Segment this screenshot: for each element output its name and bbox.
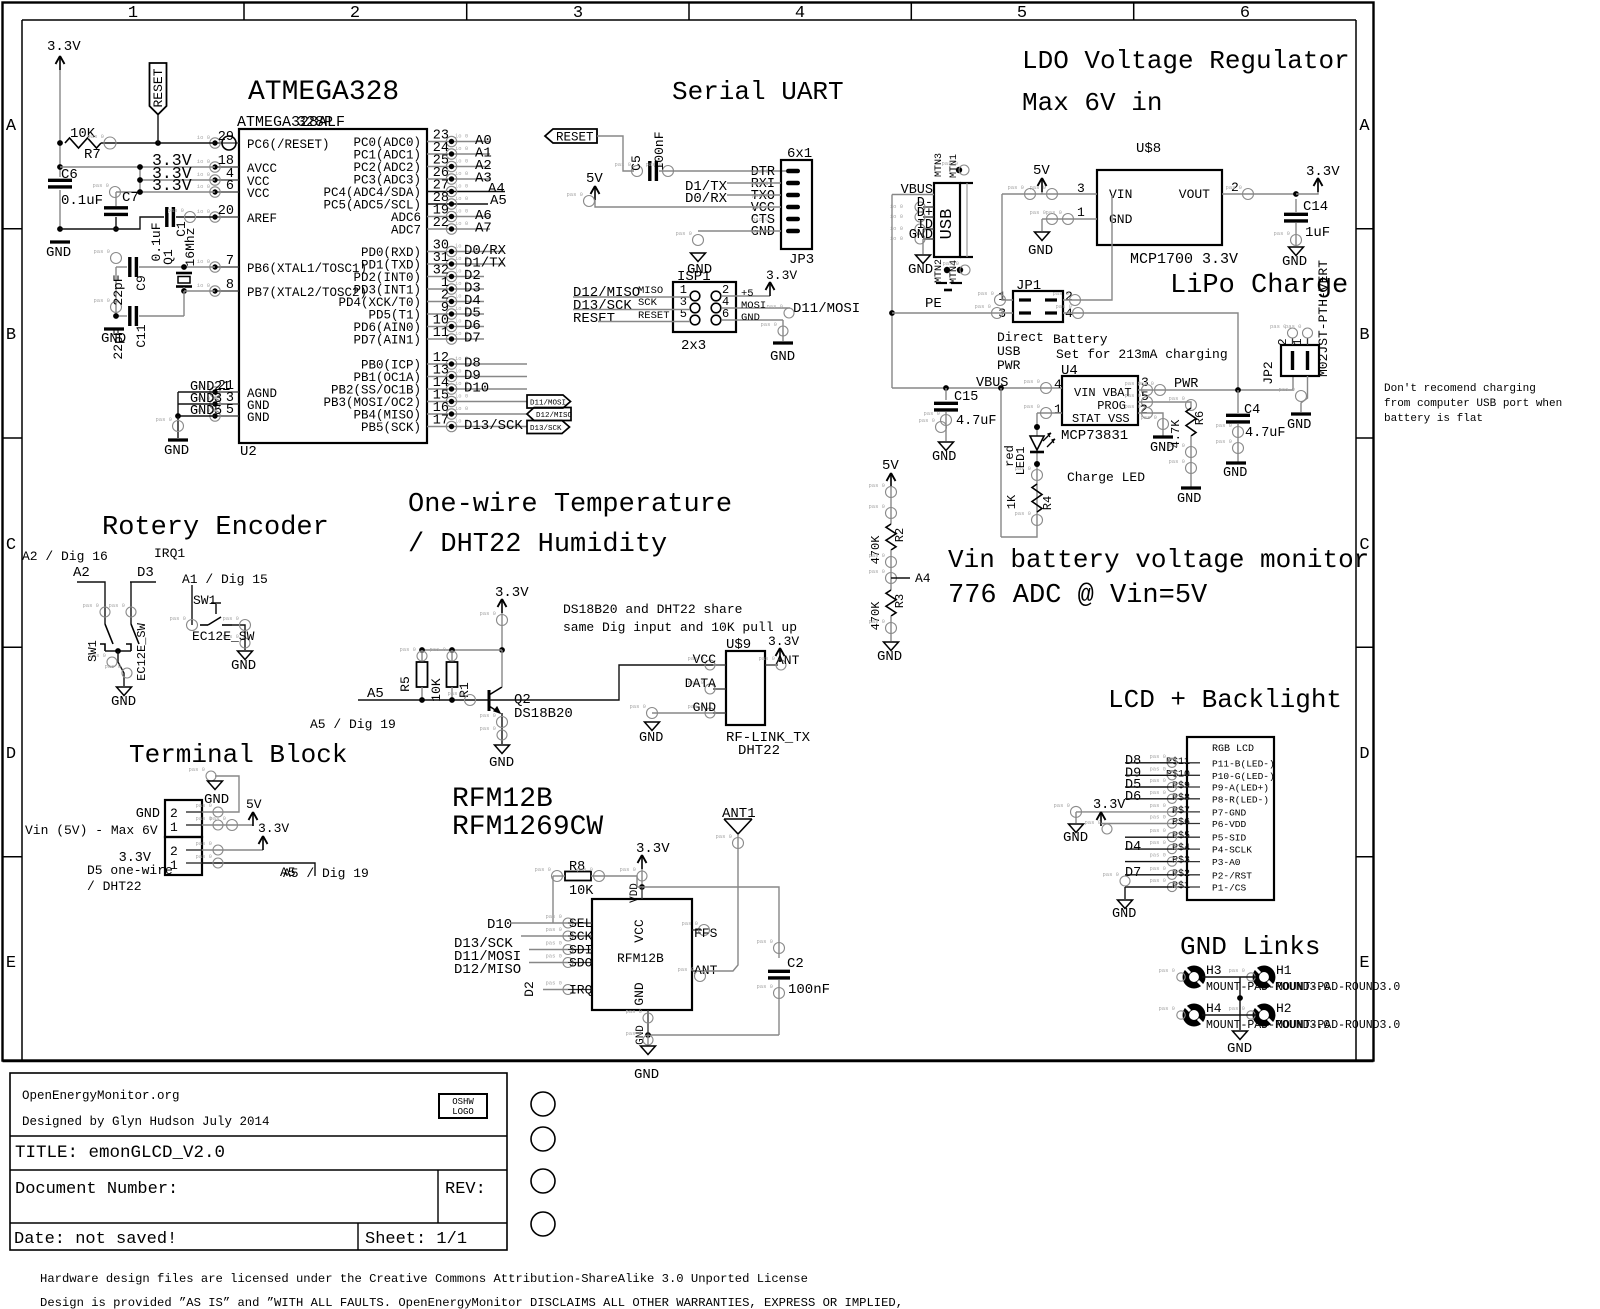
- svg-text:RFM12B: RFM12B: [452, 784, 553, 815]
- svg-text:SCK: SCK: [638, 297, 658, 309]
- svg-text:GND Links: GND Links: [1180, 932, 1320, 962]
- svg-text:4.7uF: 4.7uF: [956, 414, 997, 429]
- svg-text:A5: A5: [280, 865, 296, 880]
- svg-text:C11: C11: [134, 324, 149, 348]
- svg-text:MOSI: MOSI: [741, 300, 766, 312]
- svg-text:pas 0: pas 0: [545, 913, 562, 920]
- svg-text:22: 22: [433, 216, 449, 231]
- svg-text:pas 0: pas 0: [209, 815, 226, 822]
- svg-text:pas 0: pas 0: [1149, 865, 1166, 872]
- svg-text:PWR: PWR: [1174, 377, 1198, 392]
- svg-text:6: 6: [722, 307, 729, 321]
- svg-text:io 0: io 0: [455, 158, 468, 165]
- svg-text:U2: U2: [240, 444, 257, 460]
- svg-text:MOUNT-PAD-ROUND3.0: MOUNT-PAD-ROUND3.0: [1276, 1019, 1400, 1032]
- svg-text:3.3V: 3.3V: [258, 821, 289, 836]
- svg-text:GND: GND: [231, 658, 256, 674]
- svg-text:E: E: [6, 954, 16, 973]
- svg-text:pas 0: pas 0: [1149, 777, 1166, 784]
- svg-text:pas 0: pas 0: [625, 1030, 642, 1037]
- svg-text:pas 0: pas 0: [1055, 303, 1072, 310]
- svg-text:DS18B20 and DHT22 share: DS18B20 and DHT22 share: [563, 602, 742, 617]
- svg-text:pas 0: pas 0: [1014, 510, 1031, 517]
- svg-text:pas 0: pas 0: [1168, 395, 1185, 402]
- svg-text:D: D: [6, 745, 16, 764]
- svg-text:PB5(SCK): PB5(SCK): [361, 421, 421, 435]
- svg-text:STAT VSS: STAT VSS: [1072, 412, 1130, 426]
- svg-text:pas 0: pas 0: [429, 646, 446, 653]
- svg-text:P1-/CS: P1-/CS: [1212, 883, 1247, 894]
- svg-text:pas 0: pas 0: [1149, 802, 1166, 809]
- svg-text:/ DHT22: / DHT22: [87, 879, 142, 894]
- svg-text:pas 0: pas 0: [188, 766, 205, 773]
- svg-text:D0/RX: D0/RX: [685, 191, 728, 207]
- svg-text:776 ADC @ Vin=5V: 776 ADC @ Vin=5V: [948, 581, 1208, 611]
- svg-text:pas 0: pas 0: [1124, 392, 1141, 399]
- svg-text:RESET: RESET: [151, 68, 166, 107]
- svg-text:io 0: io 0: [455, 183, 468, 190]
- svg-text:B: B: [1359, 326, 1369, 345]
- svg-text:A4: A4: [915, 571, 931, 586]
- svg-text:2: 2: [170, 844, 178, 859]
- svg-text:pas 0: pas 0: [545, 980, 562, 987]
- svg-text:4: 4: [795, 4, 805, 23]
- svg-text:pas 0: pas 0: [155, 416, 172, 423]
- svg-text:pas 0: pas 0: [1149, 827, 1166, 834]
- svg-text:pas 0: pas 0: [534, 866, 551, 873]
- svg-text:17: 17: [433, 414, 449, 429]
- svg-text:pas 0: pas 0: [1278, 386, 1295, 393]
- svg-text:3.3V: 3.3V: [495, 585, 529, 601]
- svg-text:pas 0: pas 0: [447, 690, 464, 697]
- svg-text:470K: 470K: [869, 601, 883, 631]
- svg-text:Don't recomend charging: Don't recomend charging: [1384, 383, 1536, 395]
- svg-text:GND: GND: [908, 262, 933, 278]
- svg-text:pas 0: pas 0: [1052, 290, 1069, 297]
- svg-text:SW1: SW1: [193, 593, 217, 608]
- svg-text:pas 0: pas 0: [629, 703, 646, 710]
- svg-text:io 0: io 0: [455, 145, 468, 152]
- svg-text:H3: H3: [1206, 963, 1222, 978]
- svg-text:C7: C7: [122, 190, 139, 206]
- svg-text:Designed by Glyn Hudson July 2: Designed by Glyn Hudson July 2014: [22, 1115, 270, 1129]
- svg-text:pas 0: pas 0: [1084, 819, 1101, 826]
- svg-text:16Mhz: 16Mhz: [183, 227, 198, 266]
- svg-text:GND: GND: [111, 694, 136, 710]
- svg-text:GND: GND: [741, 312, 760, 324]
- svg-text:A5: A5: [490, 193, 507, 209]
- svg-text:D3: D3: [137, 565, 154, 581]
- svg-text:5: 5: [214, 404, 222, 419]
- svg-text:VOUT: VOUT: [1179, 187, 1210, 202]
- svg-text:pas 0: pas 0: [868, 482, 885, 489]
- svg-text:pas 0: pas 0: [104, 663, 121, 670]
- svg-text:from computer USB port when: from computer USB port when: [1384, 398, 1562, 410]
- svg-text:pas 0: pas 0: [918, 417, 935, 424]
- svg-text:2x3: 2x3: [681, 338, 706, 354]
- svg-text:D12/MISO: D12/MISO: [536, 412, 573, 420]
- svg-text:C: C: [6, 536, 16, 555]
- svg-text:pas 0: pas 0: [766, 303, 783, 310]
- svg-text:GND: GND: [1177, 492, 1201, 507]
- svg-text:LCD + Backlight: LCD + Backlight: [1108, 685, 1342, 715]
- svg-text:GND: GND: [639, 731, 663, 746]
- svg-text:pas 0: pas 0: [1158, 1005, 1175, 1012]
- svg-text:470K: 470K: [869, 535, 883, 565]
- svg-text:GND: GND: [1287, 418, 1311, 433]
- svg-text:VCC: VCC: [632, 919, 647, 943]
- svg-text:io 0: io 0: [197, 158, 210, 165]
- svg-text:pas 0: pas 0: [760, 321, 777, 328]
- svg-text:GND: GND: [164, 443, 189, 459]
- svg-text:GND: GND: [1112, 907, 1136, 922]
- svg-text:C9: C9: [134, 275, 149, 291]
- svg-text:1: 1: [170, 820, 178, 835]
- svg-text:IRQ1: IRQ1: [154, 546, 185, 561]
- svg-text:1: 1: [1054, 402, 1062, 417]
- svg-text:LDO Voltage Regulator: LDO Voltage Regulator: [1022, 46, 1350, 76]
- svg-text:pas 0: pas 0: [868, 503, 885, 510]
- svg-text:pas 0: pas 0: [545, 940, 562, 947]
- svg-text:10K: 10K: [569, 884, 594, 899]
- svg-text:1: 1: [128, 4, 138, 23]
- svg-text:pas 0: pas 0: [619, 866, 636, 873]
- svg-text:REV:: REV:: [445, 1180, 486, 1199]
- svg-text:3: 3: [1077, 181, 1085, 196]
- svg-text:A1 / Dig 15: A1 / Dig 15: [182, 572, 268, 587]
- svg-text:RESET: RESET: [556, 131, 594, 145]
- svg-text:pas 0: pas 0: [977, 290, 994, 297]
- svg-text:pas 0: pas 0: [942, 260, 959, 267]
- svg-text:P6-VDD: P6-VDD: [1212, 819, 1247, 830]
- svg-text:SW1: SW1: [86, 640, 100, 662]
- svg-text:GND: GND: [932, 450, 956, 465]
- svg-text:3.3V: 3.3V: [152, 176, 192, 195]
- svg-text:JP2: JP2: [1261, 361, 1276, 384]
- svg-text:OSHW: OSHW: [452, 1097, 474, 1107]
- svg-text:pas 0: pas 0: [715, 833, 732, 840]
- svg-text:D5 one-wire: D5 one-wire: [87, 863, 173, 878]
- svg-text:GND: GND: [909, 228, 933, 243]
- svg-text:DS18B20: DS18B20: [514, 706, 573, 722]
- svg-text:C2: C2: [787, 956, 804, 972]
- svg-text:6x1: 6x1: [787, 146, 812, 162]
- svg-text:GND: GND: [634, 1067, 659, 1083]
- svg-text:GND: GND: [489, 755, 514, 771]
- svg-text:ADC7: ADC7: [391, 224, 421, 238]
- svg-text:pas 0: pas 0: [1007, 184, 1024, 191]
- svg-text:pas 0: pas 0: [399, 646, 416, 653]
- svg-text:pas 0: pas 0: [1273, 230, 1290, 237]
- svg-text:IRQ: IRQ: [569, 983, 593, 998]
- svg-text:pas 0: pas 0: [1029, 184, 1046, 191]
- svg-text:A2: A2: [73, 565, 90, 581]
- svg-text:Vin battery voltage monitor: Vin battery voltage monitor: [948, 545, 1369, 575]
- svg-text:pas 0: pas 0: [195, 840, 212, 847]
- svg-text:Battery: Battery: [1053, 332, 1108, 347]
- svg-text:pas 0: pas 0: [1140, 414, 1157, 421]
- svg-text:Direct: Direct: [997, 330, 1044, 345]
- svg-text:100nF: 100nF: [652, 131, 667, 170]
- svg-text:JP3: JP3: [789, 252, 814, 268]
- svg-text:R2: R2: [893, 528, 907, 542]
- svg-text:AVCC: AVCC: [247, 162, 277, 176]
- svg-text:P10-G(LED-): P10-G(LED-): [1212, 771, 1275, 782]
- svg-text:pas 0: pas 0: [479, 712, 496, 719]
- svg-text:pas 0: pas 0: [868, 618, 885, 625]
- svg-text:GND: GND: [1223, 466, 1247, 481]
- svg-text:P7-GND: P7-GND: [1212, 807, 1247, 818]
- svg-text:11: 11: [433, 326, 449, 341]
- svg-text:VBUS: VBUS: [976, 376, 1008, 391]
- svg-text:R6: R6: [1193, 411, 1207, 425]
- svg-text:5V: 5V: [586, 171, 603, 187]
- svg-text:Vin (5V) - Max 6V: Vin (5V) - Max 6V: [25, 823, 158, 838]
- svg-text:A2 / Dig 16: A2 / Dig 16: [22, 549, 108, 564]
- svg-text:pas 0: pas 0: [566, 191, 583, 198]
- svg-text:5V: 5V: [1033, 163, 1050, 179]
- svg-text:pas 0: pas 0: [222, 615, 239, 622]
- svg-text:io 0: io 0: [455, 170, 468, 177]
- svg-text:PC6(/RESET): PC6(/RESET): [247, 138, 330, 152]
- svg-text:GND: GND: [136, 807, 160, 822]
- svg-text:LOGO: LOGO: [452, 1107, 474, 1117]
- svg-text:C4: C4: [1244, 403, 1260, 418]
- svg-text:D7: D7: [464, 331, 481, 347]
- svg-text:D7: D7: [1125, 866, 1141, 881]
- svg-text:pas 0: pas 0: [1228, 1005, 1245, 1012]
- svg-text:Hardware design files are lice: Hardware design files are licensed under…: [40, 1272, 808, 1286]
- svg-text:MOUNT-PAD-ROUND3.0: MOUNT-PAD-ROUND3.0: [1276, 981, 1400, 994]
- svg-text:pas 0: pas 0: [479, 610, 496, 617]
- svg-text:Sheet: 1/1: Sheet: 1/1: [365, 1230, 467, 1249]
- svg-text:pad 0: pad 0: [752, 168, 769, 175]
- svg-text:100nF: 100nF: [788, 982, 830, 998]
- svg-text:pas 0: pas 0: [1149, 753, 1166, 760]
- svg-text:0.1uF: 0.1uF: [61, 193, 103, 209]
- svg-text:io 0: io 0: [197, 208, 210, 215]
- svg-text:pas 0: pas 0: [1102, 871, 1119, 878]
- svg-text:pas 0: pas 0: [1215, 422, 1232, 429]
- svg-text:C15: C15: [954, 390, 978, 405]
- svg-text:pas 0: pas 0: [1023, 403, 1040, 410]
- svg-text:22pF: 22pF: [111, 274, 126, 305]
- svg-text:GND: GND: [1063, 830, 1088, 846]
- svg-text:ATMEGA328: ATMEGA328: [248, 77, 399, 108]
- svg-text:3.3V: 3.3V: [1306, 164, 1340, 180]
- svg-text:pas 0: pas 0: [1124, 403, 1141, 410]
- svg-text:PE: PE: [925, 296, 942, 312]
- svg-text:PB6(XTAL1/TOSC1): PB6(XTAL1/TOSC1): [247, 262, 367, 276]
- svg-text:PWR: PWR: [997, 358, 1021, 373]
- svg-text:DHT22: DHT22: [738, 743, 780, 759]
- svg-text:D11/MOSI: D11/MOSI: [530, 400, 566, 408]
- svg-text:C5: C5: [629, 155, 644, 171]
- svg-text:MCP1700 3.3V: MCP1700 3.3V: [1130, 251, 1238, 268]
- svg-text:pas 0: pas 0: [545, 926, 562, 933]
- svg-text:io 0: io 0: [455, 133, 468, 140]
- svg-text:RGB LCD: RGB LCD: [1212, 744, 1254, 755]
- svg-text:pas 0: pas 0: [92, 182, 109, 189]
- svg-text:EC12E_SW: EC12E_SW: [192, 629, 255, 644]
- svg-text:GND: GND: [632, 982, 647, 1006]
- svg-text:pas 0: pas 0: [675, 230, 692, 237]
- svg-text:TITLE: emonGLCD_V2.0: TITLE: emonGLCD_V2.0: [15, 1143, 225, 1163]
- svg-text:1: 1: [1077, 205, 1085, 220]
- svg-text:P8-R(LED-): P8-R(LED-): [1212, 794, 1269, 805]
- svg-text:P9-A(LED+): P9-A(LED+): [1212, 783, 1269, 794]
- svg-text:5: 5: [226, 403, 234, 418]
- svg-text:Document Number:: Document Number:: [15, 1180, 178, 1199]
- svg-text:VCC: VCC: [247, 187, 270, 201]
- svg-text:io 0: io 0: [197, 282, 210, 289]
- svg-text:1: 1: [1291, 338, 1305, 345]
- svg-text:io 0: io 0: [197, 171, 210, 178]
- svg-text:D: D: [1359, 745, 1369, 764]
- svg-text:DATA: DATA: [685, 676, 716, 691]
- svg-text:P3-A0: P3-A0: [1212, 857, 1241, 868]
- svg-text:pas 0: pas 0: [1149, 877, 1166, 884]
- svg-text:pas 0: pas 0: [545, 953, 562, 960]
- svg-text:ANT1: ANT1: [722, 806, 756, 822]
- svg-text:pad 0: pad 0: [752, 216, 769, 223]
- svg-text:GND: GND: [247, 411, 270, 425]
- svg-text:io 0: io 0: [455, 220, 468, 227]
- svg-text:4: 4: [1054, 377, 1062, 392]
- svg-text:pas 0: pas 0: [82, 602, 99, 609]
- svg-text:P5-SID: P5-SID: [1212, 833, 1247, 844]
- svg-text:pas 0: pas 0: [1149, 789, 1166, 796]
- svg-text:SDO: SDO: [569, 956, 593, 971]
- svg-text:pas 0: pas 0: [108, 602, 125, 609]
- svg-text:pas 0: pas 0: [1014, 465, 1031, 472]
- svg-text:pas 0: pas 0: [576, 866, 593, 873]
- svg-text:D13/SCK: D13/SCK: [530, 425, 562, 433]
- svg-text:5V: 5V: [882, 458, 899, 474]
- svg-text:pas 0: pas 0: [923, 410, 940, 417]
- svg-text:D2: D2: [522, 981, 537, 997]
- svg-text:RFM12B: RFM12B: [617, 951, 664, 966]
- svg-text:AREF: AREF: [247, 212, 277, 226]
- svg-text:GND: GND: [46, 245, 71, 261]
- svg-text:A: A: [1359, 117, 1370, 136]
- svg-text:io 0: io 0: [197, 258, 210, 265]
- svg-text:D13/SCK: D13/SCK: [464, 418, 523, 434]
- svg-text:P4-SCLK: P4-SCLK: [1212, 845, 1252, 856]
- svg-text:D11/MOSI: D11/MOSI: [793, 301, 860, 317]
- svg-text:Serial UART: Serial UART: [672, 77, 844, 107]
- svg-text:2: 2: [350, 4, 360, 23]
- svg-text:One-wire Temperature: One-wire Temperature: [408, 490, 732, 520]
- svg-text:B: B: [6, 326, 16, 345]
- svg-text:same Dig input and 10K pull up: same Dig input and 10K pull up: [563, 620, 797, 635]
- svg-text:pas 0: pas 0: [1285, 323, 1302, 330]
- svg-text:pas 0: pas 0: [167, 207, 184, 214]
- svg-text:RESET: RESET: [638, 310, 670, 322]
- svg-text:A5 / Dig 19: A5 / Dig 19: [310, 717, 396, 732]
- svg-text:pas 0: pas 0: [1228, 967, 1245, 974]
- svg-text:H4: H4: [1206, 1001, 1222, 1016]
- svg-text:RESET: RESET: [573, 311, 615, 327]
- svg-text:Date: not saved!: Date: not saved!: [14, 1230, 177, 1249]
- svg-text:R7: R7: [84, 147, 101, 163]
- svg-text:EC12E_SW: EC12E_SW: [135, 622, 149, 680]
- svg-text:C14: C14: [1303, 199, 1328, 215]
- svg-text:20: 20: [218, 204, 234, 219]
- svg-text:pas 0: pas 0: [479, 725, 496, 732]
- svg-text:R4: R4: [1041, 496, 1055, 510]
- svg-text:pas 0: pas 0: [1053, 802, 1070, 809]
- svg-text:GND: GND: [1150, 441, 1174, 456]
- svg-text:P2-/RST: P2-/RST: [1212, 870, 1252, 881]
- svg-text:8: 8: [226, 278, 234, 293]
- svg-text:MISO: MISO: [638, 285, 663, 297]
- svg-text:A: A: [6, 117, 17, 136]
- svg-text:OpenEnergyMonitor.org: OpenEnergyMonitor.org: [22, 1089, 180, 1103]
- svg-text:pas 0: pas 0: [1149, 814, 1166, 821]
- svg-text:pas 0: pas 0: [756, 938, 773, 945]
- svg-text:Design is provided ”AS IS” and: Design is provided ”AS IS” and ”WITH ALL…: [40, 1296, 903, 1309]
- svg-text:1K: 1K: [1005, 494, 1019, 509]
- svg-text:pas 0: pas 0: [756, 983, 773, 990]
- svg-text:pas 0: pas 0: [1215, 438, 1232, 445]
- svg-text:7: 7: [226, 254, 234, 269]
- svg-text:R5: R5: [398, 676, 413, 692]
- svg-text:MCP73831: MCP73831: [1061, 428, 1128, 444]
- svg-text:R3: R3: [893, 594, 907, 608]
- svg-text:pas 0: pas 0: [1149, 765, 1166, 772]
- svg-text:3.3V: 3.3V: [1093, 798, 1126, 813]
- svg-text:pas 0: pas 0: [868, 568, 885, 575]
- svg-text:4.7uF: 4.7uF: [1245, 426, 1286, 441]
- svg-text:GND: GND: [1282, 254, 1307, 270]
- svg-text:3.3V: 3.3V: [47, 39, 81, 55]
- svg-text:PROG: PROG: [1097, 399, 1126, 413]
- svg-text:D12/MISO: D12/MISO: [454, 962, 521, 978]
- svg-text:3.3V: 3.3V: [636, 841, 670, 857]
- svg-text:5: 5: [1017, 4, 1027, 23]
- svg-text:1uF: 1uF: [1305, 225, 1330, 241]
- svg-text:D4: D4: [1125, 840, 1141, 855]
- svg-text:6: 6: [226, 179, 234, 194]
- svg-text:io 0: io 0: [455, 405, 468, 412]
- svg-text:5V: 5V: [246, 797, 262, 812]
- svg-text:GND: GND: [770, 349, 795, 365]
- svg-text:GND: GND: [1028, 243, 1053, 259]
- svg-text:io 0: io 0: [455, 393, 468, 400]
- svg-text:D10: D10: [487, 917, 512, 933]
- svg-text:3.3V: 3.3V: [768, 634, 799, 649]
- svg-text:22pF: 22pF: [111, 328, 126, 359]
- svg-text:Terminal Block: Terminal Block: [129, 740, 347, 770]
- svg-text:A5 / Dig 19: A5 / Dig 19: [283, 866, 369, 881]
- svg-text:+5: +5: [741, 288, 754, 300]
- svg-text:3: 3: [573, 4, 583, 23]
- svg-text:A7: A7: [475, 221, 492, 237]
- svg-text:Set for 213mA charging: Set for 213mA charging: [1056, 347, 1228, 362]
- svg-text:pas 0: pas 0: [941, 160, 958, 167]
- svg-text:pas 0: pas 0: [677, 966, 694, 973]
- svg-text:USB: USB: [938, 209, 957, 240]
- svg-text:U$8: U$8: [1136, 141, 1161, 157]
- svg-text:pas 0: pas 0: [1158, 967, 1175, 974]
- svg-text:2: 2: [1276, 338, 1290, 345]
- svg-text:pas 0: pas 0: [1029, 209, 1046, 216]
- svg-text:/ DHT22 Humidity: / DHT22 Humidity: [408, 530, 667, 560]
- svg-text:ANT: ANT: [776, 653, 800, 668]
- svg-text:3.3V: 3.3V: [766, 268, 797, 283]
- svg-text:2: 2: [170, 806, 178, 821]
